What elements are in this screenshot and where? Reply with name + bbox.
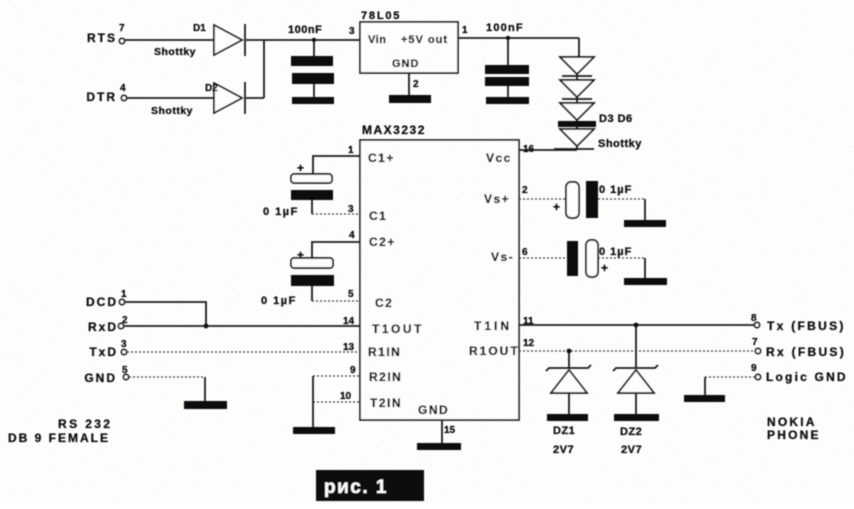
wire T2IN pin 10 [313,401,360,403]
capacitor C4 0.1uF Vs- [567,240,632,277]
wire to DZ1 [568,351,570,368]
regulator U1 78L05 [349,10,468,90]
node DCD label [86,289,127,309]
wire R1OUT pin 12 to Rx [519,350,755,352]
zener DZ1 2V7 [546,365,591,456]
op-amp U2 MAX3232 box [360,123,519,420]
wire R2IN T2IN to ground [312,376,314,427]
text NOKIA PHONE [767,415,821,442]
diode D5 [558,103,596,127]
terminal Rx pin 7 [752,337,846,359]
ground for C3 [624,220,666,227]
capacitor 100nF output [485,22,529,97]
terminal DTR pin 4 [121,95,126,100]
wire Vs+ pin 2 [519,198,566,200]
diode D2 [151,82,245,117]
wire C2- to pin 5 [312,300,360,302]
wire C4 to ground [598,258,645,278]
IC pin labels left [368,151,449,417]
wire node A vertical join [263,40,265,98]
ground for DZ1 [547,414,588,421]
capacitor C2 0.1uF [261,248,334,307]
wire RTS to D1 [125,39,214,41]
ground for DB9 GND [184,401,227,409]
wire TxD to R1IN pin 13 [127,351,360,353]
capacitor C1 0.1uF [263,161,333,218]
text RS 232 [8,417,112,445]
terminal RxD pin 2 [118,323,123,328]
wire DCD to RxD junction [125,302,206,326]
diode D3 [560,57,594,76]
junction dot DZ2 [634,323,639,328]
wire T1IN pin 11 to Tx [519,324,754,326]
terminal TxD pin 3 [121,349,126,354]
wire node A to 78L05 Vin pin 3 [264,39,360,41]
diode D1 [154,23,245,58]
node DTR label [86,83,126,104]
ground for 78L05 [389,95,431,103]
ground for Logic GND [684,395,725,402]
wire Vcc pin 16 [519,149,577,151]
wire Vs- pin 6 [519,257,567,259]
capacitor C3 0.1uF Vs+ [553,181,632,218]
wire C1- to pin 3 [312,213,360,215]
ground for R2IN T2IN [293,427,335,434]
node GND DB9 label [84,365,128,385]
node RxD label [88,315,128,334]
terminal RTS pin 7 [119,38,124,43]
wire D1 cathode to node A [246,39,264,41]
node TxD label [89,339,127,359]
wire R2IN pin 9 [313,375,360,377]
wire D2 cathode to node A [246,97,264,99]
wire Logic GND [705,377,755,395]
diode D4 [560,80,594,99]
junction dot C2out [506,36,510,40]
junction dot DZ1 [567,349,572,354]
wire RxD to T1OUT pin 14 [124,325,360,327]
IC pin numbers [340,144,535,436]
wire to diode chain [577,38,579,150]
terminal Tx pin 8 [751,313,846,333]
terminal GND pin 5 [123,374,128,379]
wire 78L05 out pin 1 [458,37,579,39]
caption pic 1 [316,470,424,501]
ground for input cap [292,97,334,104]
wire to DZ2 [635,325,637,368]
wire C1+ pin 1 [313,156,360,174]
terminal Logic GND pin 9 [751,363,848,384]
capacitor 100nF input [288,24,334,97]
IC pin labels right [469,151,520,358]
ground for output cap [486,97,529,104]
junction dot C1in [312,38,316,42]
wire MAX GND pin 15 stem [441,420,443,443]
diode D6 [554,113,642,150]
node RTS label [87,23,125,45]
ground for C4 [624,278,667,285]
ground for DZ2 [614,414,659,421]
wire DTR to D2 [127,97,214,99]
zener DZ2 2V7 [613,365,658,456]
wire GND DB9 [129,377,205,401]
ground for MAX3232 [417,443,461,450]
wire C3 to ground [598,199,645,220]
wire C2+ pin 4 [312,242,360,258]
terminal DCD pin 1 [119,299,124,304]
wire 78L05 GND stem [408,73,410,95]
junction dot DCD-RxD [204,324,209,329]
